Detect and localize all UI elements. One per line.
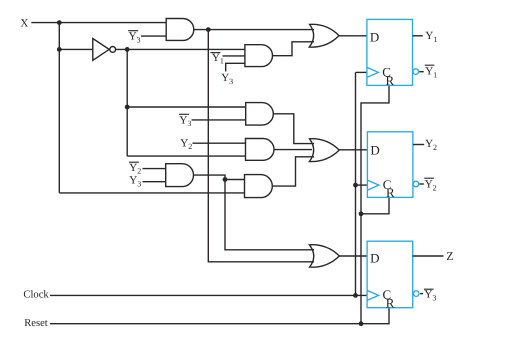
wire AND3 output step down to OR2 bbox=[273, 114, 314, 144]
wire Y3 step to AND2 bbox=[226, 63, 245, 71]
svg-text:Z: Z bbox=[446, 249, 453, 263]
wire Y1bar to AND2 bbox=[223, 55, 245, 57]
svg-text:Y2: Y2 bbox=[425, 179, 437, 193]
wire Xbar to AND4 bottom input bbox=[127, 155, 245, 157]
label Y3bar at AND3 input bbox=[179, 114, 191, 128]
label Y3bar output bbox=[424, 288, 436, 302]
wire AND4 output to OR2 bbox=[274, 149, 312, 151]
wire FF1 R to reset chain vertical bbox=[361, 85, 389, 323]
node Clock to FF2 C junction bbox=[353, 183, 358, 188]
bubble FF1 Y1bar output bbox=[413, 69, 419, 75]
svg-text:Clock: Clock bbox=[23, 289, 49, 300]
label Y3bar at AND1 input bbox=[128, 31, 140, 45]
svg-text:D: D bbox=[370, 142, 379, 157]
wire Reset horizontal up to FF3 R bbox=[50, 308, 389, 324]
wire AND5 vertical bus to OR3 bbox=[225, 180, 314, 250]
wire AND1 output to OR1 bbox=[194, 29, 314, 31]
and-gate AND1 (X . Y3bar) bbox=[166, 19, 194, 41]
svg-text:Y1: Y1 bbox=[212, 52, 224, 66]
wire Y3bar to AND1 bbox=[141, 35, 166, 37]
bubble FF2 Y2bar output bbox=[413, 181, 419, 187]
svg-text:D: D bbox=[370, 251, 379, 266]
svg-text:Y3: Y3 bbox=[221, 72, 233, 86]
node X branch junction bbox=[57, 20, 62, 25]
svg-text:Y3: Y3 bbox=[424, 288, 436, 302]
svg-text:Reset: Reset bbox=[24, 318, 48, 329]
bubble FF3 Y3bar output bbox=[413, 291, 419, 297]
wire X input horizontal bbox=[31, 22, 166, 24]
svg-text:Y2: Y2 bbox=[180, 137, 192, 151]
and-gate AND2 (Xbar . Y1bar . Y3) bbox=[245, 45, 273, 67]
wire AND6 output step up to OR2 bbox=[272, 157, 314, 186]
svg-text:Y3: Y3 bbox=[129, 31, 141, 45]
wire X bottom horizontal to AND6 bbox=[59, 192, 244, 194]
wire AND2 output step up to OR1 bbox=[273, 42, 315, 56]
svg-text:Y3: Y3 bbox=[129, 175, 141, 189]
flip-flop U2 (D flip-flop, outputs Y2) bbox=[367, 132, 413, 198]
wire Y3 to AND5 bbox=[143, 181, 166, 183]
wire Clock vertical bus bbox=[355, 72, 357, 295]
wire FF1 Y1 output stub bbox=[413, 35, 423, 37]
or-gate OR1 (to FF1 D) bbox=[309, 24, 339, 47]
wire OR3 output to FF3 D bbox=[339, 255, 367, 257]
wire Y2 to AND4 bbox=[193, 142, 246, 144]
label Y2bar at AND5 input bbox=[129, 162, 141, 176]
wire Clock to FF1 C bbox=[356, 71, 367, 73]
wire AND5 output step down to AND6 bbox=[194, 175, 245, 179]
label Y1bar at AND2 input bbox=[210, 52, 223, 66]
wire OR1 output to FF1 D bbox=[339, 35, 367, 37]
svg-text:Y2: Y2 bbox=[129, 162, 141, 176]
label Y1bar output bbox=[425, 65, 437, 79]
node X to inverter junction bbox=[57, 47, 62, 52]
svg-text:R: R bbox=[386, 295, 395, 310]
flip-flop U1 (D flip-flop, outputs Y1) bbox=[367, 19, 413, 85]
svg-text:X: X bbox=[20, 17, 28, 29]
wire Y2bar to AND5 bbox=[143, 168, 166, 170]
node Clock branch junction bbox=[353, 293, 358, 298]
label Y2bar output bbox=[424, 178, 436, 192]
wire AND1 vertical bus to OR3 bbox=[208, 30, 314, 262]
wire Y3bar to AND3 bbox=[192, 119, 246, 121]
svg-text:Y2: Y2 bbox=[425, 138, 437, 152]
inverter (NOT gate) bbox=[93, 39, 109, 61]
wire Clock to FF2 C bbox=[356, 184, 368, 186]
node AND1 output junction bbox=[206, 27, 211, 32]
wire FF3 Y3bar dash bbox=[420, 293, 423, 295]
wire FF2 Y2 output stub bbox=[413, 144, 424, 146]
svg-text:Y1: Y1 bbox=[425, 65, 437, 79]
node Xbar to AND3 junction bbox=[125, 105, 130, 110]
wire inverter input bbox=[59, 48, 93, 50]
and-gate AND5 (Y2bar . Y3) bbox=[166, 164, 194, 187]
wire FF2 Y2bar dash bbox=[419, 183, 423, 185]
inverter bubble bbox=[110, 47, 116, 53]
or-gate OR2 (to FF2 D) bbox=[309, 139, 339, 162]
and-gate AND3 (Xbar . Y3bar) bbox=[246, 103, 274, 126]
wire FF2 R to reset chain bbox=[361, 197, 389, 213]
wire OR2 output to FF2 D bbox=[339, 149, 367, 151]
wire inverter output to AND2 bbox=[116, 48, 245, 50]
wire Clock horizontal bbox=[50, 294, 367, 296]
svg-text:R: R bbox=[386, 185, 395, 200]
or-gate OR3 (to FF3 D) bbox=[309, 245, 339, 267]
wire FF3 Z output bbox=[413, 255, 444, 257]
and-gate AND6 (AND5 . X) bbox=[245, 175, 273, 198]
node AND5 output junction bbox=[223, 177, 228, 182]
node FF2 R chain junction bbox=[359, 211, 364, 216]
node Reset chain junction bbox=[359, 321, 364, 326]
node inverter output junction bbox=[125, 47, 130, 52]
wire Xbar vertical bus bbox=[126, 49, 128, 156]
flip-flop U3 (D flip-flop, output Z / Y3) bbox=[367, 241, 413, 308]
svg-text:D: D bbox=[370, 30, 379, 45]
svg-text:Y1: Y1 bbox=[425, 30, 437, 44]
and-gate AND4 (Y2 . Xbar) bbox=[246, 139, 275, 161]
svg-text:Y3: Y3 bbox=[179, 114, 191, 128]
svg-text:R: R bbox=[386, 73, 395, 88]
wire Xbar to AND3 top input bbox=[127, 106, 246, 108]
wire X vertical bus bbox=[58, 23, 60, 193]
wire FF1 Y1bar dash bbox=[419, 71, 423, 73]
